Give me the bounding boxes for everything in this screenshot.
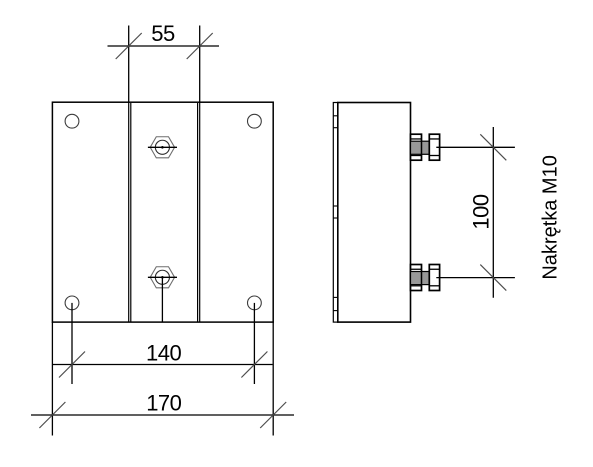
dimension 55: dimension line — [108, 45, 220, 47]
bolt centerline — [436, 146, 515, 148]
side view: plate edge strip — [333, 103, 338, 323]
side view: body rectangle — [338, 103, 411, 323]
dimension 55: tick right — [187, 33, 213, 59]
dimension 100: tick lower — [480, 265, 506, 291]
channel flange line right-outer — [199, 102, 201, 322]
hole top-left — [65, 114, 79, 128]
strip mark 2 — [333, 127, 338, 129]
hex nut lower (front view) — [148, 267, 177, 288]
strip mark 1 — [333, 115, 338, 117]
threaded rod M10 — [411, 272, 430, 285]
channel flange line left-outer — [128, 102, 130, 322]
dimension 170: tick left — [39, 402, 65, 428]
dimension 140: extension line right — [253, 303, 255, 384]
dimension 140: extension line left — [71, 303, 73, 384]
lower bolt assembly (side view) — [411, 265, 515, 291]
strip mark 5 — [333, 296, 338, 298]
dimension 100: tick upper — [480, 134, 506, 160]
dimension 55: extension line right — [199, 26, 201, 103]
nut M10 — [429, 134, 439, 160]
hole bottom-left — [65, 296, 79, 310]
dimension 55: extension line left — [128, 26, 130, 103]
channel flange line left-inner — [130, 103, 132, 322]
plate outline (front view 170x170) — [52, 102, 273, 322]
svg-text:140: 140 — [146, 340, 181, 365]
dimension 170: extension line left — [51, 322, 53, 435]
dimension 100: dimension line — [492, 127, 494, 298]
dimension 170: dimension line — [31, 414, 294, 416]
dimension 140: tick left — [59, 352, 85, 378]
svg-text:100: 100 — [469, 194, 494, 229]
dimension 170: extension line right — [272, 322, 274, 435]
dimension 140: tick right — [241, 352, 267, 378]
channel flange line right-inner — [197, 103, 199, 322]
svg-text:Nakrętka M10: Nakrętka M10 — [540, 155, 562, 280]
strip mark 3 — [333, 205, 338, 207]
hole bottom-right — [248, 296, 262, 310]
strip mark 6 — [333, 310, 338, 312]
hex nut upper (front view) — [148, 137, 177, 158]
upper bolt assembly (side view) — [411, 134, 515, 160]
dimension 55: tick left — [116, 33, 142, 59]
threaded rod M10 — [411, 141, 430, 154]
washer — [411, 134, 422, 160]
washer — [411, 265, 422, 291]
svg-text:55: 55 — [151, 21, 175, 46]
svg-text:170: 170 — [146, 390, 181, 415]
dimension 140: dimension line — [53, 364, 273, 366]
dimension 170: tick right — [260, 402, 286, 428]
nut M10 — [429, 265, 439, 291]
bolt centerline — [436, 277, 515, 279]
centerline from lower nut to plate bottom — [161, 277, 163, 322]
strip mark 4 — [333, 217, 338, 219]
hole top-right — [248, 114, 262, 128]
